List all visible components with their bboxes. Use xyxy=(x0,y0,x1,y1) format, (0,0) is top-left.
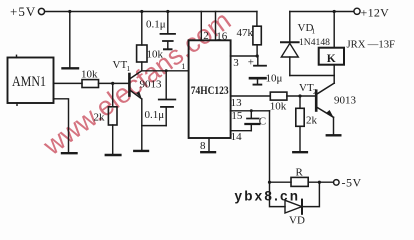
wire pin2 stub xyxy=(200,12,202,41)
node pin3/47k xyxy=(256,54,259,57)
wire pin8 stub xyxy=(208,138,210,151)
capacitor 0.1u (emitter/collector) xyxy=(142,71,176,126)
ground 2k xyxy=(106,154,121,156)
capacitor 0.1u (top) xyxy=(146,12,175,50)
node R network top xyxy=(268,181,271,184)
svg-text:+5V: +5V xyxy=(10,4,36,19)
ground VT2 emitter xyxy=(327,134,341,136)
svg-text:C: C xyxy=(259,116,266,128)
svg-text:2: 2 xyxy=(203,30,209,42)
svg-text:+: + xyxy=(248,57,254,69)
resistor 10k (base VT1) xyxy=(81,69,99,88)
wire AMN1 out xyxy=(54,82,83,84)
svg-text:10k: 10k xyxy=(81,69,98,81)
svg-text:16: 16 xyxy=(216,31,228,43)
resistor 2k (VT2 base) xyxy=(296,96,318,151)
wire collector to IC pin1 xyxy=(142,70,189,72)
svg-text:14: 14 xyxy=(231,131,243,143)
resistor 10k (base VT2) xyxy=(270,92,287,112)
wire pin15 xyxy=(231,110,270,112)
resistor R xyxy=(270,167,334,187)
svg-text:8: 8 xyxy=(200,140,206,152)
svg-text:AMN1: AMN1 xyxy=(12,74,46,90)
-5V terminal xyxy=(334,176,362,190)
diode VD (parallel R) xyxy=(270,182,320,226)
wire 10k to VT2 base xyxy=(287,95,316,97)
svg-text:JRX —13F: JRX —13F xyxy=(347,39,396,50)
ground AMN1 xyxy=(62,152,77,154)
svg-text:13: 13 xyxy=(231,97,243,109)
svg-text:0.1μ: 0.1μ xyxy=(146,19,166,31)
ground pin8 xyxy=(201,151,215,153)
wire pin16 stub xyxy=(215,12,217,41)
node rail-cap xyxy=(166,10,169,13)
wire AMN1 gnd xyxy=(54,99,69,152)
svg-text:+12V: +12V xyxy=(361,6,390,20)
wire pin13 xyxy=(231,95,271,97)
node VD branch xyxy=(318,181,321,184)
transistor VT2 9013 xyxy=(299,76,357,135)
wire rail corner to 47k xyxy=(256,12,258,27)
AMN1 sensor module xyxy=(8,55,54,105)
+5V supply terminal xyxy=(10,4,45,19)
svg-text:1: 1 xyxy=(181,61,185,71)
ground VT1 emitter xyxy=(134,150,148,152)
svg-text:1: 1 xyxy=(312,27,316,36)
node rail-K xyxy=(333,10,336,13)
diode VD1 1N4148 xyxy=(281,12,330,76)
svg-text:15: 15 xyxy=(231,110,243,122)
ground 2k VT2 xyxy=(293,151,307,153)
node pin15/C xyxy=(250,109,253,112)
svg-text:-5V: -5V xyxy=(342,176,362,190)
svg-text:9013: 9013 xyxy=(140,79,163,91)
svg-text:47k: 47k xyxy=(237,27,254,39)
svg-text:10k: 10k xyxy=(147,49,164,61)
wire pin14 xyxy=(231,130,252,132)
svg-text:74HC123: 74HC123 xyxy=(191,83,229,97)
node cap tap xyxy=(165,69,168,72)
wire AMN1 power drop with T-bar terminal xyxy=(69,12,71,68)
resistor 2k (base VT1 to gnd) xyxy=(94,83,118,154)
svg-text:10μ: 10μ xyxy=(266,73,283,85)
watermark www.elecfans.com xyxy=(37,5,236,161)
svg-text:K: K xyxy=(327,53,336,65)
svg-text:VT: VT xyxy=(299,82,314,94)
wire +5V rail xyxy=(45,11,257,13)
resistor 47k xyxy=(237,26,262,56)
wire pin15 down to R/VD xyxy=(269,111,271,182)
svg-text:0.1μ: 0.1μ xyxy=(145,109,165,121)
svg-text:3: 3 xyxy=(233,57,239,69)
IC U1 74HC123 monostable xyxy=(189,40,231,138)
svg-text:9013: 9013 xyxy=(334,95,357,107)
node rail-AMN1 xyxy=(68,10,71,13)
node rail-10k xyxy=(140,10,143,13)
capacitor C xyxy=(245,111,266,131)
+12V supply terminal xyxy=(290,6,389,20)
wire 10k to base xyxy=(99,82,129,84)
svg-text:1: 1 xyxy=(127,64,131,73)
node base-2k xyxy=(111,82,114,85)
resistor 10k (collector load VT1) xyxy=(137,12,164,71)
relay K JRX-13F xyxy=(319,12,395,76)
wire pin3 xyxy=(231,55,258,57)
svg-text:ybx8.cn: ybx8.cn xyxy=(235,188,301,203)
wire diode to collector node xyxy=(290,75,334,77)
svg-text:VT: VT xyxy=(113,59,128,71)
transistor VT1 9013 xyxy=(113,59,163,150)
svg-text:2k: 2k xyxy=(94,112,106,124)
svg-text:2k: 2k xyxy=(306,115,318,127)
svg-text:1N4148: 1N4148 xyxy=(299,38,330,48)
svg-text:VD: VD xyxy=(289,215,305,227)
capacitor 10u electrolytic xyxy=(248,56,283,85)
svg-text:10k: 10k xyxy=(270,101,287,113)
node base-2k VT2 xyxy=(298,94,301,97)
